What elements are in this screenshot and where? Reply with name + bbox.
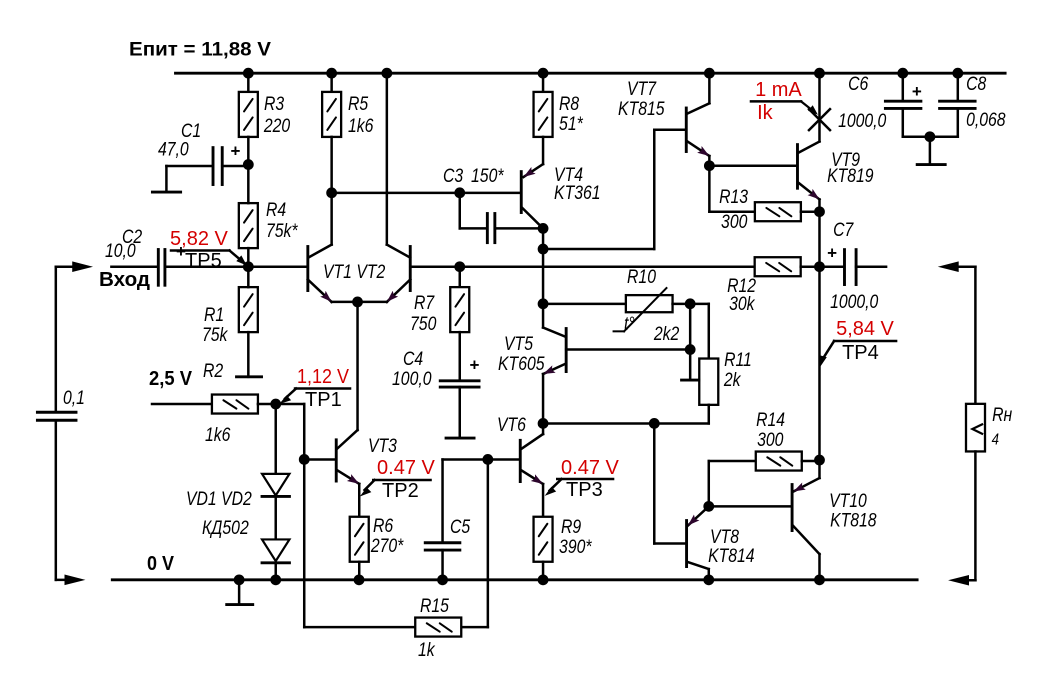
svg-text:KT605: KT605 <box>498 353 545 375</box>
node output connector arrow right <box>938 261 976 403</box>
wire R15 left branch <box>304 459 414 627</box>
resistor R15 1k <box>415 595 461 661</box>
node VT6 collector junction dot <box>538 418 549 429</box>
svg-text:R3: R3 <box>264 93 284 115</box>
svg-text:47,0: 47,0 <box>158 138 189 160</box>
svg-text:VT7: VT7 <box>627 78 657 100</box>
svg-text:ТР2: ТР2 <box>382 480 419 502</box>
transistor VT10 KT818 <box>792 460 877 580</box>
svg-text:2,5 V: 2,5 V <box>149 368 193 390</box>
node rail junction dots <box>243 68 963 79</box>
ground C1 <box>152 166 180 192</box>
resistor R11 2k <box>699 304 752 424</box>
svg-text:1k: 1k <box>418 639 436 661</box>
node C6/C8 ground junction dot <box>924 131 935 142</box>
resistor R12 30k <box>727 257 819 314</box>
svg-text:KT818: KT818 <box>830 509 877 531</box>
svg-text:1 mA: 1 mA <box>755 79 802 101</box>
wire to VT7 base <box>543 130 686 249</box>
svg-text:750: 750 <box>410 313 437 335</box>
resistor R7 750 <box>410 267 469 380</box>
capacitor C2 10,0 <box>105 226 186 286</box>
node R7 junction dot <box>454 261 465 272</box>
svg-text:5,82 V: 5,82 V <box>170 228 228 250</box>
capacitor C3 150* <box>443 165 543 243</box>
node R10 takeoff dot <box>538 298 549 309</box>
node C3 junction dot <box>454 187 465 198</box>
label TP1 / 1,12 V <box>279 366 350 411</box>
resistor R8 51* <box>534 73 584 164</box>
label TP4 / 5,84 V <box>819 318 896 367</box>
node VD1 VD2 labels <box>186 488 252 539</box>
svg-text:VT6: VT6 <box>497 414 526 436</box>
capacitor C1 47,0 <box>158 120 248 185</box>
svg-text:t°: t° <box>624 313 635 335</box>
svg-text:+: + <box>827 244 837 263</box>
svg-text:0.47 V: 0.47 V <box>561 457 619 479</box>
ground C6/C8 <box>917 137 945 165</box>
svg-text:1k6: 1k6 <box>348 115 374 137</box>
svg-text:300: 300 <box>757 429 784 451</box>
svg-text:C5: C5 <box>450 516 470 538</box>
wire emitter VT5 node to VT8 branch <box>543 422 709 425</box>
svg-text:KT814: KT814 <box>708 545 755 567</box>
svg-text:R13: R13 <box>719 186 748 208</box>
diode VD2 <box>262 496 289 579</box>
transistor VT3 <box>336 302 397 516</box>
svg-text:R1: R1 <box>204 304 224 326</box>
svg-text:+: + <box>912 82 922 101</box>
node R14 right junction dot <box>814 455 825 466</box>
wire VT3 base <box>304 458 335 461</box>
wire down to VT8 base <box>654 423 685 543</box>
svg-text:2k2: 2k2 <box>653 323 680 345</box>
svg-text:R4: R4 <box>266 199 286 221</box>
svg-text:C7: C7 <box>833 219 854 241</box>
svg-text:300: 300 <box>721 211 748 233</box>
transistor VT4 KT361 <box>521 164 600 229</box>
node emitters junction dot <box>352 297 363 308</box>
resistor R13 300 <box>709 166 819 233</box>
svg-text:30k: 30k <box>729 293 756 315</box>
capacitor C7 1000,0 <box>819 219 886 313</box>
wire 0V bottom rail <box>112 578 917 581</box>
resistor R6 270* <box>350 515 405 580</box>
svg-text:VT10: VT10 <box>829 490 867 512</box>
node bias junction dot <box>270 399 281 410</box>
label TP5 / 5,82 V <box>170 228 247 272</box>
node input connector arrow top <box>56 261 93 272</box>
transistor VT8 KT814 <box>687 506 755 580</box>
transistor VT5 KT605 <box>498 304 566 424</box>
label TP2 / 0.47 V <box>360 457 436 502</box>
svg-text:KT361: KT361 <box>554 182 600 204</box>
svg-text:1000,0: 1000,0 <box>838 110 886 132</box>
diode VD1 <box>262 404 289 496</box>
wire VT4 collector down <box>542 228 545 249</box>
svg-text:C3: C3 <box>443 165 463 187</box>
node VT4 collector dot <box>538 223 549 234</box>
label TP3 / 0.47 V <box>545 457 620 501</box>
svg-text:VT3: VT3 <box>368 435 397 457</box>
resistor 1k6 bias <box>152 395 276 446</box>
node VT8 branch dot <box>649 418 660 429</box>
svg-text:+: + <box>470 356 480 375</box>
wire bias to VT3 base <box>276 404 305 459</box>
node R5/VT1 collector junction <box>326 187 337 198</box>
svg-text:Вход: Вход <box>99 269 150 291</box>
svg-text:VT1 VT2: VT1 VT2 <box>323 261 385 283</box>
wire VT5 base branch <box>682 304 699 380</box>
svg-text:R2: R2 <box>203 360 223 382</box>
wire R10 to R11 top <box>690 303 709 306</box>
ground C4 <box>446 387 474 438</box>
wire feedback line VT2 base to R12 <box>410 265 754 268</box>
svg-text:C6: C6 <box>848 73 868 95</box>
svg-text:КД502: КД502 <box>202 517 249 539</box>
node input junction dot <box>243 261 254 272</box>
capacitor C4 100,0 <box>392 348 480 390</box>
svg-text:0.47 V: 0.47 V <box>377 457 435 479</box>
node output junction dot <box>814 261 825 272</box>
svg-text:+: + <box>231 141 241 160</box>
ground stub on 0V rail <box>227 580 253 605</box>
svg-text:R8: R8 <box>559 93 579 115</box>
wire junction down to R10 <box>542 249 545 304</box>
resistor R9 390* <box>534 516 593 580</box>
node bottom rail junction dots <box>234 574 825 585</box>
wire VT5 base line <box>566 348 690 351</box>
svg-text:75k*: 75k* <box>266 220 299 242</box>
capacitor 0,1 <box>37 387 85 421</box>
svg-text:1k6: 1k6 <box>205 424 231 446</box>
svg-text:C4: C4 <box>403 348 423 370</box>
svg-text:R15: R15 <box>420 595 449 617</box>
capacitor C8 0,068 <box>930 73 1006 137</box>
node R15 right junction dot <box>482 454 493 465</box>
svg-text:VT5: VT5 <box>504 333 533 355</box>
svg-text:0 V: 0 V <box>147 553 175 575</box>
transistor VT7 KT815 <box>618 73 709 166</box>
svg-text:KT815: KT815 <box>618 98 665 120</box>
svg-text:R5: R5 <box>348 93 368 115</box>
resistor R10 2k2 thermistor <box>543 266 690 345</box>
svg-text:0,068: 0,068 <box>966 109 1006 131</box>
resistor R14 300 <box>709 409 820 471</box>
svg-text:75k: 75k <box>202 324 229 346</box>
svg-text:2k: 2k <box>723 369 742 391</box>
node driver takeoff dot <box>538 244 549 255</box>
svg-text:390*: 390* <box>559 536 593 558</box>
node VT8 emitter junction dot <box>703 501 714 512</box>
resistor R3 220 <box>239 73 291 164</box>
node R3/R4/C1 junction <box>243 159 254 170</box>
wire input line to C2 <box>111 265 157 268</box>
svg-text:0,1: 0,1 <box>63 387 85 409</box>
wire R15 right branch <box>462 459 488 627</box>
svg-text:1000,0: 1000,0 <box>830 291 878 313</box>
svg-text:VD1 VD2: VD1 VD2 <box>186 488 252 510</box>
wire VT8 base line to VT10 base <box>709 505 791 508</box>
svg-text:ТР4: ТР4 <box>842 342 879 364</box>
svg-text:10,0: 10,0 <box>105 240 136 262</box>
svg-text:R14: R14 <box>756 409 785 431</box>
node R2 open terminal <box>203 360 262 382</box>
svg-text:Епит = 11,88 V: Епит = 11,88 V <box>129 39 271 61</box>
node R13/VT9 emitter dot <box>814 206 825 217</box>
svg-text:ТР1: ТР1 <box>305 389 342 411</box>
label 1 mA / Ik with arrow to X <box>751 79 818 124</box>
wire VT8 emitter node up to R14 <box>708 461 711 506</box>
svg-text:R7: R7 <box>414 292 435 314</box>
node VT7 emitter junction dot <box>704 160 715 171</box>
node input connector arrow bottom <box>56 575 86 586</box>
svg-text:1,12 V: 1,12 V <box>297 366 350 388</box>
svg-text:ТР3: ТР3 <box>566 479 603 501</box>
node X current-break mark <box>809 109 830 130</box>
svg-text:100,0: 100,0 <box>392 368 432 390</box>
svg-text:51*: 51* <box>559 113 584 135</box>
node VT5 base junction dot <box>685 344 696 355</box>
wire left input connector vertical <box>55 267 58 580</box>
svg-text:R9: R9 <box>561 516 581 538</box>
transistor VT2 (right of pair) <box>358 73 411 302</box>
svg-text:KT819: KT819 <box>827 165 874 187</box>
resistor R1 75k <box>202 267 258 377</box>
wire C5 top to VT6 base <box>443 458 520 461</box>
node load connector arrow bottom <box>948 575 975 586</box>
svg-text:220: 220 <box>263 115 290 137</box>
svg-text:270*: 270* <box>370 535 404 557</box>
transistor VT6 <box>497 414 543 516</box>
svg-text:C8: C8 <box>966 73 986 95</box>
capacitor C5 <box>425 459 470 579</box>
wire R5 junction to VT4 base <box>332 192 522 195</box>
capacitor C6 1000,0 <box>838 73 930 137</box>
svg-text:150*: 150* <box>471 165 505 187</box>
wire VT9 emitter down to VT10 <box>818 267 821 460</box>
svg-text:R10: R10 <box>627 266 656 288</box>
svg-text:5,84 V: 5,84 V <box>836 318 894 340</box>
transistor VT9 KT819 <box>797 73 873 267</box>
svg-text:Ik: Ik <box>757 102 774 124</box>
wire C2 to VT1 base <box>165 265 307 268</box>
node VT3 base junction dot <box>299 454 310 465</box>
svg-text:R6: R6 <box>373 515 393 537</box>
resistor R5 1k6 <box>322 73 374 193</box>
svg-text:R11: R11 <box>724 349 752 371</box>
wire VT7 emitter to VT9 base <box>709 164 796 167</box>
svg-text:ТР5: ТР5 <box>185 250 222 272</box>
wire top supply rail <box>176 72 1006 75</box>
resistor Rн 4 load <box>966 404 1013 581</box>
node R10 right junction dot <box>685 298 696 309</box>
svg-text:4: 4 <box>992 431 999 448</box>
resistor R4 75k* <box>239 165 299 267</box>
transistor VT1 (left of pair) <box>308 193 358 302</box>
svg-text:Rн: Rн <box>992 404 1012 426</box>
